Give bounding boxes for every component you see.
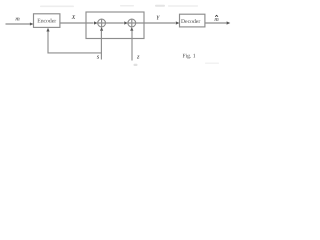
svg-text:z: z <box>136 53 140 60</box>
svg-text:m: m <box>214 17 219 23</box>
svg-text:X: X <box>71 15 76 21</box>
svg-text:Fig. 1: Fig. 1 <box>182 54 195 60</box>
svg-text:Encoder: Encoder <box>37 19 56 25</box>
svg-text:m: m <box>15 17 20 23</box>
svg-text:Decoder: Decoder <box>181 19 200 25</box>
